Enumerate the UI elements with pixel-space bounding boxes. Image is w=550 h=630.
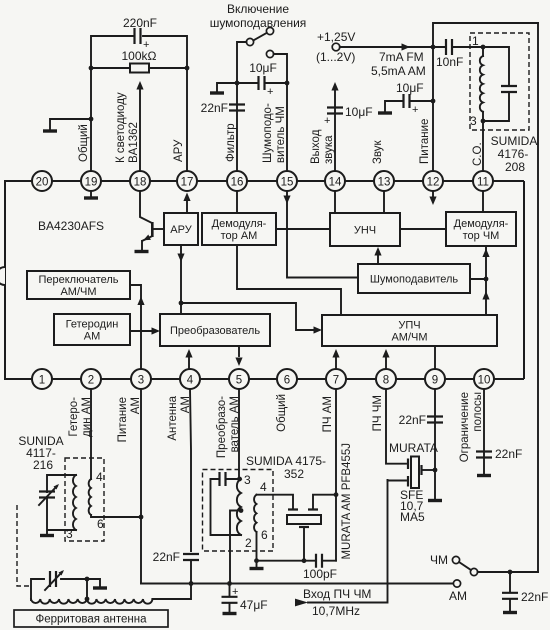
pin 17 bbox=[177, 171, 197, 191]
wire tank left loop bbox=[211, 479, 242, 535]
transistor emitter arrow bbox=[143, 235, 151, 241]
wire AM demod to UNCH bbox=[276, 228, 330, 230]
node tank bottom (3) bbox=[481, 119, 486, 124]
wire switch lower contact to pin15 line bbox=[274, 54, 287, 83]
converter primary winding bbox=[237, 479, 241, 535]
node antenna cap top bbox=[85, 577, 90, 582]
svg-text:5: 5 bbox=[236, 375, 242, 387]
svg-text:MURATA: MURATA bbox=[389, 441, 438, 455]
svg-text:6: 6 bbox=[97, 517, 104, 531]
svg-text:АМ: АМ bbox=[449, 589, 467, 603]
ground under transistor emitter bbox=[135, 250, 149, 253]
ground G8 pin 9 bbox=[428, 499, 442, 502]
pin 9 bbox=[425, 369, 445, 389]
wire pin 8 down to SFE filter bbox=[386, 389, 406, 464]
svg-text:4176-: 4176- bbox=[498, 147, 529, 161]
wire ground line to 100pF bbox=[257, 560, 337, 562]
svg-text:(1...2V): (1...2V) bbox=[316, 50, 355, 64]
svg-text:Вход ПЧ ЧМ: Вход ПЧ ЧМ bbox=[303, 587, 371, 601]
pin 20 bbox=[32, 171, 52, 191]
wire secondary bottom to ground node bbox=[256, 532, 258, 561]
svg-text:ЧМ: ЧМ bbox=[430, 553, 448, 567]
ground G9 pin 10 bbox=[477, 474, 491, 477]
svg-text:BA1362: BA1362 bbox=[128, 122, 140, 163]
ground G1 bbox=[43, 129, 57, 132]
capacitor C5 10uF pin12 decoupling bbox=[385, 101, 433, 112]
dashed box SUNIDA oscillator coil T1 bbox=[65, 458, 104, 541]
capacitor C12 22nF pin 9 bbox=[427, 417, 443, 423]
dashed box SUMIDA 4175-352 converter coil T2 bbox=[203, 470, 274, 552]
pin 11 bbox=[473, 171, 493, 191]
wire pin 14 audio output arrow bbox=[334, 91, 336, 171]
svg-text:14: 14 bbox=[329, 177, 342, 189]
svg-text:100pF: 100pF bbox=[303, 567, 337, 581]
wire pin 16 up bbox=[236, 83, 238, 171]
wire AM demod bottom to IF amp top bbox=[237, 245, 341, 315]
wire SFE lower terminal to FM IF input line bbox=[388, 480, 407, 482]
wire tank to pin 11 bbox=[482, 121, 484, 171]
AM power rail to switch bbox=[141, 583, 453, 585]
svg-text:13: 13 bbox=[378, 177, 391, 189]
svg-text:Шумоподавитель: Шумоподавитель bbox=[370, 274, 459, 286]
svg-text:7mA FM: 7mA FM bbox=[379, 50, 424, 64]
node pin17/R1 bbox=[185, 66, 190, 71]
wire switch block to pin 3 line with up arrow bbox=[130, 285, 141, 369]
svg-text:20: 20 bbox=[36, 177, 49, 189]
block AM oscillator (Гетеродин АМ) bbox=[54, 314, 130, 345]
svg-text:10μF: 10μF bbox=[249, 61, 277, 75]
wire var cap bottom to primary bottom and ground bbox=[47, 497, 76, 534]
block AGC (АРУ) U1a bbox=[164, 213, 198, 245]
svg-text:208: 208 bbox=[505, 160, 525, 174]
svg-text:2: 2 bbox=[245, 536, 252, 550]
IC U1 BA4230AFS body outline bbox=[5, 181, 524, 379]
svg-text:Ограничение: Ограничение bbox=[459, 392, 471, 462]
svg-text:Звук: Звук bbox=[372, 139, 384, 164]
ground G7 under 47uF bbox=[223, 612, 237, 615]
svg-text:MURATA AM PFB455J: MURATA AM PFB455J bbox=[341, 443, 353, 560]
wire pin 8 up into IF amp with up arrow bbox=[385, 355, 387, 369]
svg-text:полосы: полосы bbox=[472, 392, 484, 432]
svg-text:2: 2 bbox=[88, 375, 94, 387]
pin 15 bbox=[277, 171, 297, 191]
ground G5 antenna bbox=[93, 586, 107, 589]
wire pin 3 down bbox=[140, 389, 142, 584]
svg-text:18: 18 bbox=[134, 177, 147, 189]
capacitor C7 FM tank bbox=[483, 47, 509, 121]
block converter (Преобразователь) bbox=[160, 314, 270, 346]
svg-text:7: 7 bbox=[333, 375, 339, 387]
variable capacitor CV2 antenna tuning bbox=[50, 571, 56, 587]
pin 13 bbox=[374, 171, 394, 191]
wire switch pole to +V rail bbox=[478, 571, 538, 573]
oscillator secondary winding 4-6 bbox=[89, 479, 91, 515]
wire pin 17 up bbox=[143, 36, 187, 171]
capacitor C11 47uF electrolytic bbox=[229, 584, 231, 597]
wire +1.25V to pin12 line bbox=[340, 46, 433, 48]
svg-text:Питание: Питание bbox=[117, 397, 129, 442]
node pin19/R1 bbox=[89, 66, 94, 71]
svg-text:шумоподавления: шумоподавления bbox=[210, 16, 307, 30]
node tank top (1) bbox=[481, 45, 486, 50]
svg-text:Антенна: Антенна bbox=[167, 395, 179, 440]
wire squelch top to UNCH bottom with up arrow bbox=[377, 255, 379, 264]
svg-text:УПЧ: УПЧ bbox=[398, 320, 420, 332]
svg-text:10μF: 10μF bbox=[396, 81, 424, 95]
wire secondary top to AM filter bbox=[257, 495, 294, 508]
wire 100k row bbox=[91, 67, 187, 69]
svg-text:ПЧ ЧМ: ПЧ ЧМ bbox=[372, 395, 384, 431]
ferrite antenna tank left side bbox=[31, 579, 87, 600]
ground G4 oscillator bbox=[40, 534, 54, 537]
wire pin 12 power stub with down arrow bbox=[432, 191, 434, 197]
capacitor C4 10uF on pin14 line bbox=[327, 108, 343, 114]
svg-text:Гетеро-: Гетеро- bbox=[68, 397, 80, 437]
capacitor C8 22nF on pin 4 line bbox=[183, 554, 199, 560]
svg-text:АМ/ЧМ: АМ/ЧМ bbox=[60, 286, 96, 298]
wire winding 6 to pin 3 line bbox=[91, 515, 141, 517]
svg-text:C.O.: C.O. bbox=[472, 142, 484, 166]
pin 2 bbox=[81, 369, 101, 389]
wire SFE output to pin 9 line bbox=[423, 469, 435, 471]
svg-text:10nF: 10nF bbox=[436, 55, 463, 69]
block audio amp (УНЧ) bbox=[330, 213, 400, 246]
capacitor C6 10nF to FM tank bbox=[433, 46, 483, 48]
svg-text:Гетеродин: Гетеродин bbox=[66, 319, 119, 331]
svg-text:5,5mA AM: 5,5mA AM bbox=[371, 64, 426, 78]
capacitor C13 22nF pin 10 bbox=[476, 452, 492, 458]
switch S1 squelch enable bbox=[266, 27, 273, 34]
pin 18 bbox=[130, 171, 150, 191]
ground G2 bbox=[210, 91, 224, 94]
svg-text:4: 4 bbox=[260, 480, 267, 494]
svg-text:АРУ: АРУ bbox=[170, 224, 192, 236]
svg-text:К светодиоду: К светодиоду bbox=[115, 92, 127, 163]
svg-text:Питание: Питание bbox=[419, 119, 431, 164]
capacitor C9 inside tank bbox=[211, 478, 240, 480]
svg-text:11: 11 bbox=[477, 177, 489, 189]
label box Ferrite antenna bbox=[14, 610, 168, 627]
svg-text:MA5: MA5 bbox=[400, 510, 425, 524]
svg-text:352: 352 bbox=[284, 467, 304, 481]
ground G6 under converter bbox=[256, 561, 258, 567]
wire oscillator to converter with right arrow bbox=[130, 330, 152, 332]
svg-text:22nF: 22nF bbox=[399, 413, 426, 427]
wire pin 15 up bbox=[286, 83, 288, 171]
svg-text:17: 17 bbox=[181, 177, 194, 189]
svg-text:4: 4 bbox=[187, 375, 194, 387]
wire ground spur left of C2 bbox=[217, 83, 237, 92]
wire pin 4 up into converter with up arrow bbox=[188, 355, 190, 369]
wire pin 10 down bbox=[483, 389, 485, 474]
svg-text:Преобразователь: Преобразователь bbox=[170, 325, 260, 337]
svg-text:22nF: 22nF bbox=[153, 550, 180, 564]
block squelch (Шумоподавитель) bbox=[358, 264, 470, 293]
wire pin 9 down bbox=[434, 389, 436, 499]
svg-text:6: 6 bbox=[261, 528, 268, 542]
wire squelch right to node bbox=[470, 278, 486, 280]
svg-text:Демодуля-: Демодуля- bbox=[212, 218, 267, 230]
wire pin 11 down to FM demodulator bbox=[482, 191, 484, 212]
oscillator primary winding bbox=[73, 475, 76, 530]
svg-text:SUMIDA 4175-: SUMIDA 4175- bbox=[246, 454, 326, 468]
pin 10 bbox=[474, 369, 494, 389]
capacitor C2 10uF bbox=[259, 76, 265, 90]
primary tap to rail bbox=[239, 508, 244, 513]
svg-text:Включение: Включение bbox=[227, 2, 289, 16]
wire pin 18 LED arrow bbox=[139, 90, 141, 171]
wire AGC node to IF amp left edge with right arrow bbox=[181, 303, 313, 330]
pin 19 bbox=[81, 171, 101, 191]
svg-text:10: 10 bbox=[478, 375, 491, 387]
svg-text:АРУ: АРУ bbox=[173, 139, 185, 162]
node squelch/FM demod line bbox=[484, 277, 489, 282]
svg-text:6: 6 bbox=[284, 375, 290, 387]
resistor R1 100kOhm bbox=[130, 64, 149, 73]
svg-text:19: 19 bbox=[85, 177, 98, 189]
FM IF input arrow line bbox=[295, 599, 308, 607]
wire pin 15 down to squelch block with down arrow bbox=[287, 191, 358, 278]
svg-text:АМ: АМ bbox=[84, 331, 101, 343]
block AM/FM switch (Переключатель) bbox=[27, 271, 130, 299]
pin 7 bbox=[326, 369, 346, 389]
svg-text:+: + bbox=[412, 104, 418, 116]
svg-text:100kΩ: 100kΩ bbox=[122, 49, 157, 63]
wire ground spur to pin 19 line bbox=[50, 119, 91, 130]
capacitor C10 100pF bbox=[316, 554, 322, 568]
svg-text:Шумоподо-: Шумоподо- bbox=[262, 103, 274, 163]
node ground/pin19 bbox=[89, 117, 94, 122]
wire pin 14 down to UNCH bbox=[334, 191, 336, 213]
ferrite antenna coil L2 bbox=[31, 599, 152, 604]
svg-text:АМ/ЧМ: АМ/ЧМ bbox=[391, 332, 427, 344]
pin 3 bbox=[131, 369, 151, 389]
wire pin 7 down bbox=[335, 389, 337, 561]
pin 6 bbox=[277, 369, 297, 389]
capacitor C1 220nF bbox=[135, 28, 141, 44]
wire pin 2 down to winding 4 bbox=[90, 389, 92, 479]
wire antenna coil to pin 4 line bbox=[152, 584, 191, 600]
pin 1 bbox=[32, 369, 52, 389]
svg-text:Преобразо-: Преобразо- bbox=[216, 396, 228, 458]
svg-text:8: 8 bbox=[383, 375, 389, 387]
svg-text:22nF: 22nF bbox=[201, 101, 228, 115]
svg-text:Переключатель: Переключатель bbox=[38, 274, 118, 286]
svg-text:Фильтр: Фильтр bbox=[225, 123, 237, 162]
svg-text:тор АМ: тор АМ bbox=[221, 230, 258, 242]
dashed gang line to antenna tuning cap bbox=[17, 505, 31, 586]
wire top rail down right side bbox=[537, 23, 539, 572]
svg-text:216: 216 bbox=[33, 458, 53, 472]
svg-text:1: 1 bbox=[39, 375, 45, 387]
converter secondary winding 4-6 bbox=[254, 495, 256, 532]
ground G10 under C14 bbox=[503, 611, 517, 614]
wire pin 5 down to node 3 bbox=[238, 389, 240, 479]
wire cap node down to coil tap bbox=[86, 579, 88, 599]
pin 4 bbox=[180, 369, 200, 389]
svg-text:Общий: Общий bbox=[78, 124, 90, 162]
pin 5 bbox=[229, 369, 249, 389]
node AGC line bbox=[179, 301, 184, 306]
svg-text:3: 3 bbox=[244, 473, 251, 487]
wire pin 9 up into IF amp bbox=[434, 346, 436, 369]
wire converter to pin 5 with down arrow bbox=[238, 346, 240, 356]
ground G3 under C5 bbox=[378, 111, 392, 114]
svg-text:47μF: 47μF bbox=[240, 598, 268, 612]
svg-text:4: 4 bbox=[96, 470, 103, 484]
capacitor C14 22nF at switch bbox=[509, 572, 511, 593]
wire AGC output down with arrow, node, to converter bbox=[180, 245, 182, 314]
wire pin 7 up into IF amp with up arrow bbox=[335, 355, 337, 369]
terminal +1.25V bbox=[332, 43, 340, 51]
node on pin 3 line bbox=[139, 515, 144, 520]
dashed box SUMIDA 4176-208 bbox=[470, 33, 529, 130]
svg-text:SUMIDA: SUMIDA bbox=[491, 134, 538, 148]
wire pin 12 up to top rail bbox=[433, 23, 538, 171]
wire UNCH to FM demod bbox=[400, 228, 446, 230]
block AM demodulator (Демодулятор АМ) bbox=[202, 213, 276, 245]
svg-text:10,7MHz: 10,7MHz bbox=[312, 604, 360, 618]
svg-text:+: + bbox=[324, 115, 330, 127]
svg-text:3: 3 bbox=[470, 114, 477, 128]
wire pin 13 down to UNCH bbox=[383, 191, 385, 213]
svg-text:1: 1 bbox=[472, 34, 479, 48]
svg-text:220nF: 220nF bbox=[123, 16, 157, 30]
pin 12 bbox=[423, 171, 443, 191]
pin 14 bbox=[325, 171, 345, 191]
wire IF amp up to FM demod with two up arrows bbox=[485, 247, 487, 315]
wire pin 19 up bbox=[91, 36, 133, 171]
svg-text:звука: звука bbox=[323, 135, 335, 164]
svg-text:Ферритовая антенна: Ферритовая антенна bbox=[35, 614, 147, 626]
transistor Q1 LED driver bbox=[151, 222, 154, 237]
svg-text:10μF: 10μF bbox=[345, 105, 373, 119]
svg-text:22nF: 22nF bbox=[495, 447, 522, 461]
svg-text:22nF: 22nF bbox=[521, 590, 548, 604]
block FM demodulator (Демодулятор ЧМ) bbox=[446, 212, 516, 246]
coil L1 FM quad bbox=[482, 47, 484, 56]
wire pin 18 to transistor collector bbox=[140, 191, 152, 223]
ground inside IC below pin 19 bbox=[90, 191, 92, 196]
wire pin 17 from AGC with up arrow bbox=[186, 196, 188, 213]
capacitor C3 22nF on pin16 line bbox=[229, 105, 245, 111]
svg-text:Общий: Общий bbox=[276, 394, 288, 432]
wire pin 4 down bbox=[190, 389, 191, 551]
svg-text:9: 9 bbox=[432, 375, 438, 387]
svg-text:витель ЧМ: витель ЧМ bbox=[275, 106, 287, 163]
svg-text:УНЧ: УНЧ bbox=[354, 225, 376, 237]
wire switch pole to pin16 line bbox=[237, 42, 246, 83]
IC edge wire segments between pins bbox=[52, 181, 474, 379]
IC notch on left edge bbox=[0, 267, 5, 285]
svg-text:Демодуля-: Демодуля- bbox=[454, 218, 509, 230]
wire to antenna ground bbox=[87, 579, 100, 587]
wire 10uF row between pin16 and pin15 lines bbox=[237, 82, 287, 84]
svg-text:16: 16 bbox=[231, 177, 244, 189]
wire primary top to variable cap bbox=[47, 475, 76, 492]
svg-text:тор ЧМ: тор ЧМ bbox=[463, 230, 500, 242]
wire pin 16 down to AM demodulator bbox=[236, 191, 238, 213]
svg-text:+: + bbox=[267, 86, 273, 98]
pin 8 bbox=[376, 369, 396, 389]
svg-text:BA4230AFS: BA4230AFS bbox=[38, 219, 104, 233]
svg-text:3: 3 bbox=[138, 375, 144, 387]
block IF amp (УПЧ АМ/ЧМ) bbox=[322, 315, 497, 346]
svg-text:12: 12 bbox=[427, 177, 440, 189]
svg-text:Выход: Выход bbox=[310, 129, 322, 164]
variable capacitor CV1 bbox=[39, 492, 55, 498]
pin 16 bbox=[227, 171, 247, 191]
svg-text:+1,25V: +1,25V bbox=[317, 30, 355, 44]
svg-text:ПЧ АМ: ПЧ АМ bbox=[322, 396, 334, 432]
ceramic filter F1 MURATA AM PFB455J bbox=[288, 508, 318, 510]
svg-text:15: 15 bbox=[281, 177, 294, 189]
